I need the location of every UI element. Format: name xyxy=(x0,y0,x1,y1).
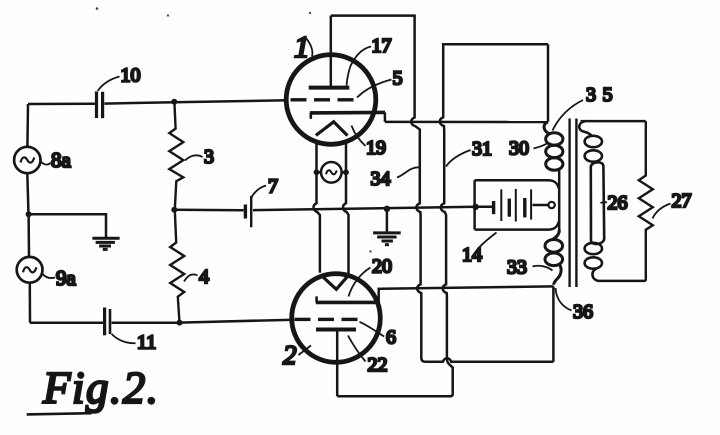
wire 8a to junction xyxy=(27,173,28,214)
tube 1 envelope xyxy=(286,55,376,145)
svg-text:34: 34 xyxy=(371,168,391,190)
wire mid bus left xyxy=(174,208,243,211)
node ground mid junction xyxy=(384,206,390,212)
svg-text:17: 17 xyxy=(372,35,392,57)
node top resistor junction xyxy=(171,99,177,105)
node bottom resistor junction xyxy=(177,320,183,326)
node heater left xyxy=(314,169,320,175)
transformer core xyxy=(568,119,570,288)
stray speck xyxy=(96,7,99,10)
svg-text:4: 4 xyxy=(199,266,209,288)
wire mid bus right xyxy=(253,207,476,210)
svg-text:8a: 8a xyxy=(51,148,72,172)
transformer secondary winding 26 xyxy=(579,121,604,281)
resistor 27 xyxy=(639,121,653,281)
svg-text:33: 33 xyxy=(507,257,527,279)
wire top rect 2 right side xyxy=(547,44,550,122)
wire bottom rail right xyxy=(112,321,180,324)
battery 14 enclosure xyxy=(473,180,476,229)
svg-text:3: 3 xyxy=(204,146,214,168)
heater source xyxy=(321,162,342,183)
tube 2 cathode bar xyxy=(316,301,379,305)
ground left xyxy=(92,238,119,249)
wire bottom rail to tube 2 grid xyxy=(180,320,295,323)
wire cathode 2 step and run xyxy=(379,286,554,302)
svg-text:20: 20 xyxy=(372,256,392,278)
wire left top vertical xyxy=(26,104,29,147)
tube 1 grid dashes xyxy=(291,98,354,101)
wire ground branch xyxy=(29,214,106,237)
wire transformer center tap xyxy=(558,170,561,230)
capacitor 11 xyxy=(103,308,106,336)
wire secondary bottom xyxy=(598,280,646,283)
svg-text:11: 11 xyxy=(137,332,156,354)
source 9a xyxy=(17,257,43,283)
wire junction to 9a xyxy=(27,214,30,257)
svg-text:22: 22 xyxy=(368,354,388,376)
label 8a xyxy=(41,162,51,165)
wire plate 1 horizontal to transformer xyxy=(385,121,548,124)
svg-text:31: 31 xyxy=(472,138,492,160)
transformer primary winding 33 xyxy=(545,230,563,285)
wire secondary top xyxy=(581,120,646,123)
wire top rect 1 xyxy=(331,16,554,362)
node heater right xyxy=(343,169,349,175)
svg-text:10: 10 xyxy=(121,65,141,87)
tube 2 envelope xyxy=(292,274,381,363)
tube 1 filament xyxy=(316,122,348,136)
label 10 xyxy=(98,77,120,91)
label 7 xyxy=(252,186,266,198)
svg-text:35: 35 xyxy=(586,84,619,106)
tube 2 plate bar xyxy=(316,328,356,332)
wire tube 1 plate lead xyxy=(330,16,333,86)
source 8a xyxy=(14,147,40,173)
tube 2 grid dashes xyxy=(295,318,358,321)
label 3 xyxy=(185,155,203,160)
node mid resistor junction xyxy=(171,207,177,213)
svg-text:7: 7 xyxy=(268,176,278,198)
stray speck xyxy=(369,250,371,252)
wire center tap down xyxy=(552,286,555,361)
wire tube 2 plate lead xyxy=(336,331,339,397)
node junction left xyxy=(26,211,32,217)
svg-text:Fig.2.: Fig.2. xyxy=(42,363,160,413)
wire 9a down to bottom rail xyxy=(29,283,32,323)
svg-text:19: 19 xyxy=(366,137,386,159)
svg-text:26: 26 xyxy=(608,192,628,214)
resistor 3 xyxy=(169,102,183,210)
label 11 xyxy=(112,334,136,343)
wire bottom rail left xyxy=(30,322,103,325)
svg-text:9a: 9a xyxy=(56,266,77,290)
battery 14 cells xyxy=(476,206,492,209)
svg-text:2: 2 xyxy=(283,340,297,370)
capacitor 7 xyxy=(244,205,247,219)
heater wire right xyxy=(343,142,349,274)
label 4 xyxy=(184,274,198,281)
node battery terminal circle xyxy=(548,202,554,208)
wire cathode 1 step xyxy=(384,112,387,122)
wire top rect 2 xyxy=(337,44,548,396)
label 9a xyxy=(42,274,55,279)
resistor 4 xyxy=(170,210,184,323)
svg-text:30: 30 xyxy=(509,138,529,160)
wire ground mid stem xyxy=(386,209,389,233)
figure caption xyxy=(27,363,160,414)
tube 1 plate bar xyxy=(309,86,350,90)
svg-text:5: 5 xyxy=(393,68,403,90)
tube 1 cathode bar xyxy=(310,111,385,115)
stray speck xyxy=(309,12,311,14)
wire top rail right xyxy=(104,100,287,103)
svg-text:6: 6 xyxy=(386,327,396,349)
svg-text:36: 36 xyxy=(573,301,593,323)
tube 2 filament xyxy=(321,275,349,290)
wire top rail left xyxy=(28,103,95,106)
node battery junction xyxy=(472,204,478,210)
svg-text:1: 1 xyxy=(294,29,310,64)
capacitor 10 xyxy=(95,91,98,118)
ground mid xyxy=(373,233,401,245)
transformer primary winding 30 xyxy=(544,122,563,170)
svg-text:27: 27 xyxy=(672,190,692,212)
heater wire left xyxy=(313,142,319,273)
